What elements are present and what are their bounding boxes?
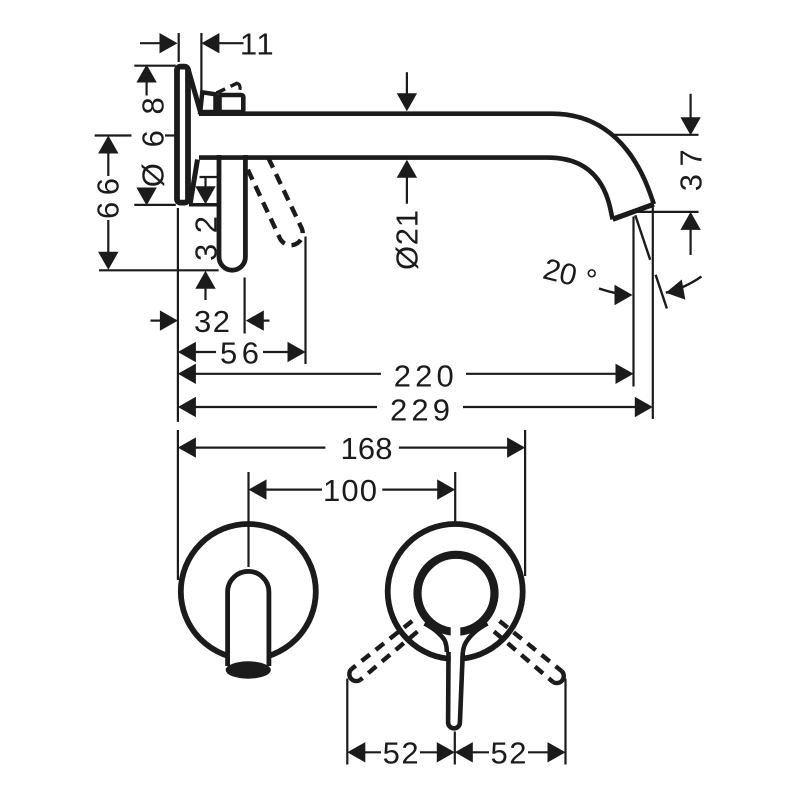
svg-text:220: 220 xyxy=(394,358,454,393)
svg-text:1: 1 xyxy=(240,27,257,62)
svg-text:52: 52 xyxy=(491,735,527,770)
svg-text:Ø68: Ø68 xyxy=(136,97,171,187)
svg-text:32: 32 xyxy=(194,304,230,339)
svg-text:229: 229 xyxy=(390,392,450,427)
svg-text:1: 1 xyxy=(256,27,273,62)
svg-text:100: 100 xyxy=(323,473,377,508)
svg-text:52: 52 xyxy=(383,735,419,770)
svg-text:Ø21: Ø21 xyxy=(390,210,425,270)
svg-text:168: 168 xyxy=(341,431,393,466)
